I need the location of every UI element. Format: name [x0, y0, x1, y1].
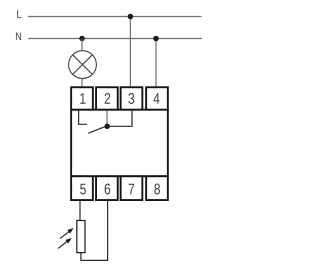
terminal 1 [71, 87, 93, 109]
photoresistor light arrow lower [58, 239, 70, 249]
wire from N line down to lamp [81, 39, 83, 52]
junction dot on N line at terminal 4 tap [153, 36, 159, 42]
pin 4 [153, 93, 159, 104]
terminal 5 [71, 176, 93, 200]
wire from N line down to terminal 4 [155, 39, 157, 88]
pin 1 [80, 93, 85, 104]
junction dot on N line at lamp tap [79, 36, 85, 42]
terminal 6 [96, 176, 118, 200]
photoresistor body [77, 221, 85, 253]
pin 7 [129, 184, 134, 195]
wire from terminal 1 down into body [79, 111, 87, 125]
pin 5 [80, 184, 86, 195]
net label L [17, 10, 21, 18]
junction dot of contact [104, 124, 110, 130]
relay contact blade (open switch) [88, 126, 107, 133]
pin 8 [154, 184, 160, 195]
wire from junction to terminal 3 [107, 111, 132, 127]
terminal 7 [121, 176, 143, 200]
wire N line [28, 38, 202, 40]
terminal 2 [96, 87, 118, 109]
wire from terminal 5 down to photoresistor [79, 201, 81, 221]
wire from terminal 2 down to contact junction [106, 111, 108, 127]
terminal 3 [121, 87, 143, 109]
device body outline [71, 110, 168, 177]
terminal 8 [146, 176, 168, 200]
pin 3 [129, 93, 135, 104]
lamp E1 [69, 51, 97, 79]
net label N [16, 33, 21, 40]
wire from photoresistor to terminal 6 [81, 201, 108, 261]
wire L line [28, 16, 202, 18]
pin 2 [105, 93, 110, 104]
wire from L line down to terminal 3 [129, 17, 131, 88]
pin 6 [105, 184, 111, 195]
terminal 4 [146, 87, 168, 109]
junction dot on L line [128, 14, 134, 20]
wire from lamp down to terminal 1 [81, 79, 83, 88]
photoresistor light arrow upper [60, 229, 72, 239]
